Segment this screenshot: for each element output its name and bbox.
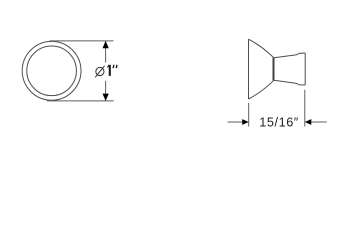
knob side view base bottom edge — [274, 80, 305, 85]
knob top view inner circle — [27, 46, 77, 96]
depth dimension right extension line — [304, 90, 306, 127]
diameter dimension down arrowhead — [103, 94, 109, 101]
knob side view base top edge — [274, 53, 305, 58]
depth dimension left tail line — [228, 121, 243, 123]
depth dimension right arrowhead — [305, 119, 312, 125]
diameter symbol — [96, 67, 104, 75]
diameter dimension line lower segment — [105, 81, 107, 101]
diameter dimension bottom extension line — [47, 100, 114, 102]
depth dimension left extension line — [248, 103, 250, 127]
diameter dimension label digit 1 — [109, 65, 111, 76]
diameter dimension up arrowhead — [103, 41, 109, 48]
knob side view neck line — [273, 58, 275, 81]
depth dimension left arrowhead — [242, 119, 249, 125]
svg-text:15/16″: 15/16″ — [259, 116, 299, 130]
knob side view top shoulder curve — [249, 39, 274, 58]
knob top view outer circle — [22, 41, 81, 100]
knob side view bottom shoulder curve — [249, 80, 274, 99]
diameter dimension top extension line — [50, 40, 114, 42]
depth dimension right tail line — [311, 121, 327, 123]
diameter dimension line upper segment — [105, 41, 107, 62]
diameter dimension label inch marks — [112, 65, 115, 68]
knob side view front face line — [248, 39, 250, 99]
knob side view mounting face right edge — [304, 53, 306, 85]
